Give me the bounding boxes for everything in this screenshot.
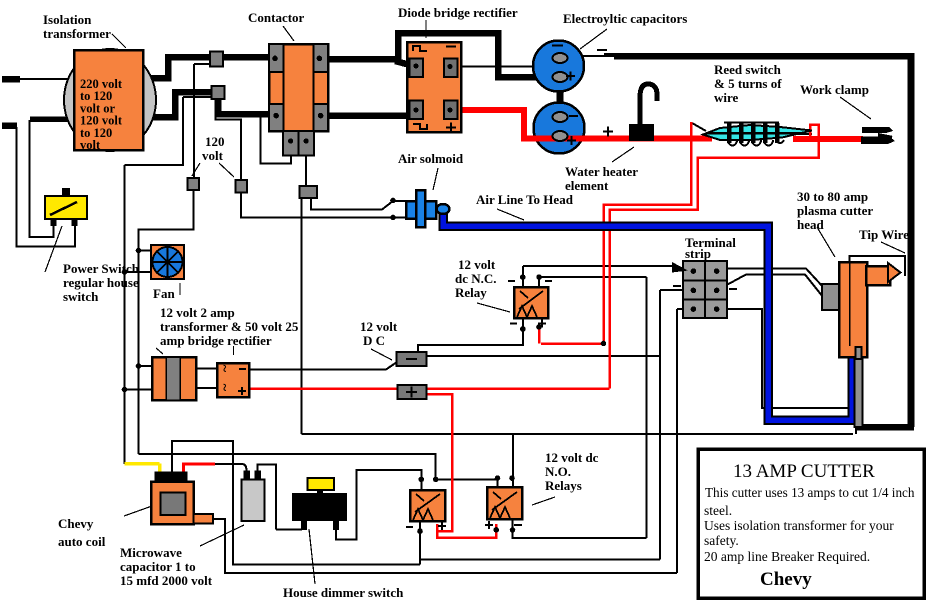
node label Contactor bbox=[248, 10, 305, 41]
wire 12v transformer to rectifier upper bbox=[195, 368, 219, 370]
wire power switch right leg loop bbox=[17, 127, 76, 247]
wire blue air line to head bbox=[443, 211, 852, 420]
wire NO relay B minus down bbox=[513, 519, 647, 538]
wire fan lower tap bbox=[125, 271, 154, 273]
svg-text:15 mfd 2000 volt: 15 mfd 2000 volt bbox=[120, 573, 213, 588]
svg-text:strip: strip bbox=[685, 246, 711, 261]
svg-text:Tip Wire: Tip Wire bbox=[859, 227, 909, 242]
water heater element bbox=[629, 84, 657, 141]
wire tap connector2 to left rail bbox=[125, 97, 213, 464]
wire work lead top thick bbox=[614, 53, 911, 60]
svg-text:amp bridge rectifier: amp bridge rectifier bbox=[160, 333, 272, 348]
wire minus block rail right bbox=[426, 355, 660, 357]
node label 30 to 80 amp plasma cutter head bbox=[797, 189, 873, 257]
contactor K1 bbox=[269, 44, 328, 131]
node label Tip Wire bbox=[859, 227, 909, 253]
node label Electroyltic capacitors bbox=[563, 11, 687, 49]
svg-text:This cutter uses 13 amps to cu: This cutter uses 13 amps to cut 1/4 inch bbox=[705, 485, 915, 500]
wire to NO relay A top-right bbox=[139, 454, 436, 480]
svg-text:capacitor 1 to: capacitor 1 to bbox=[120, 559, 196, 574]
chevy auto coil bbox=[151, 472, 213, 525]
node label Air solnoid bbox=[398, 151, 464, 190]
wire terminal t1 right to head gray block bbox=[727, 269, 824, 289]
svg-text:House dimmer switch: House dimmer switch bbox=[283, 585, 404, 600]
svg-text:30 to 80 amp: 30 to 80 amp bbox=[797, 189, 868, 204]
terminal strip TS1 bbox=[672, 261, 737, 318]
svg-text:Air solmoid: Air solmoid bbox=[398, 151, 464, 166]
diode bridge rectifier D1 bbox=[407, 42, 461, 133]
relay K3 12 volt dc N.O. A bbox=[406, 477, 446, 534]
svg-text:Contactor: Contactor bbox=[248, 10, 305, 25]
svg-text:20 amp line Breaker Required.: 20 amp line Breaker Required. bbox=[704, 549, 870, 564]
wire transformer upper output to contactor bbox=[143, 57, 278, 78]
wire contactor top-right to diode bridge bbox=[328, 56, 398, 63]
svg-text:Work clamp: Work clamp bbox=[800, 82, 869, 97]
svg-text:plasma cutter: plasma cutter bbox=[797, 203, 873, 218]
wire riser to terminal strip row3 bbox=[677, 309, 684, 573]
plasma cutter head bbox=[822, 262, 901, 427]
wire rail tap to 12v transformer upper bbox=[139, 365, 154, 367]
wire step up to head tube bbox=[855, 425, 857, 434]
wire mains hot thin to transformer bbox=[20, 78, 75, 80]
wire reed switch right lead bbox=[794, 133, 812, 135]
isolation transformer bbox=[64, 49, 156, 152]
svg-text:12 volt dc: 12 volt dc bbox=[545, 450, 599, 465]
12 volt DC plus block bbox=[398, 385, 427, 399]
node label 12 volt DC bbox=[360, 319, 398, 360]
wire capacitor series link bar bbox=[557, 74, 564, 120]
node coil circuit connector bbox=[300, 186, 318, 198]
svg-text:volt: volt bbox=[202, 148, 224, 163]
svg-text:Chevy: Chevy bbox=[760, 569, 812, 590]
node label 12 volt 2 amp transformer bbox=[156, 305, 299, 355]
node label 12 volt dc N.O. Relays bbox=[532, 450, 599, 505]
wire diode top over to capacitor plus bbox=[398, 33, 557, 77]
wire minus block to NC relay minus pin bbox=[418, 318, 523, 352]
wire riser to terminal strip row2 bbox=[660, 290, 684, 560]
wire red down to NO relay coils bbox=[426, 394, 452, 531]
50 volt 25 amp bridge rectifier D2 bbox=[217, 363, 249, 397]
svg-text:Uses isolation transformer for: Uses isolation transformer for your bbox=[704, 518, 894, 533]
svg-text:head: head bbox=[797, 217, 825, 232]
svg-text:Air Line To Head: Air Line To Head bbox=[476, 192, 574, 207]
svg-text:Electroyltic capacitors: Electroyltic capacitors bbox=[563, 11, 687, 26]
svg-text:12 volt 2 amp: 12 volt 2 amp bbox=[160, 305, 235, 320]
node mains connector 2 bbox=[212, 86, 225, 99]
wire microwave capacitor to dimmer bbox=[258, 465, 303, 530]
node mains connector 1 bbox=[210, 52, 223, 67]
node label Isolation transformer bbox=[43, 12, 126, 48]
wire terminal t2 right diagonal to head bbox=[717, 275, 823, 298]
svg-text:12 volt: 12 volt bbox=[360, 319, 398, 334]
wire black clamp lead bbox=[861, 137, 892, 142]
node label Chevy auto coil bbox=[58, 506, 152, 549]
node label Fan bbox=[153, 283, 180, 301]
node minus mark above capacitor lead bbox=[597, 50, 614, 54]
house dimmer switch bbox=[292, 478, 347, 530]
svg-text:switch: switch bbox=[63, 289, 99, 304]
svg-text:N.O.: N.O. bbox=[545, 464, 571, 479]
svg-text:120: 120 bbox=[205, 134, 225, 149]
svg-text:transformer & 50 volt 25: transformer & 50 volt 25 bbox=[160, 319, 299, 334]
node label Power Switch bbox=[45, 226, 140, 304]
node junction dots bbox=[51, 198, 606, 481]
wire big connector right pin to solenoid top lead bbox=[311, 197, 407, 210]
wire link relay A to relay B tops bbox=[436, 479, 498, 491]
wire chevy coil tab to bottom run bbox=[213, 519, 677, 573]
svg-text:~: ~ bbox=[218, 383, 233, 391]
electrolytic capacitor C2 bbox=[534, 103, 585, 154]
svg-text:transformer: transformer bbox=[43, 26, 111, 41]
wire red reed switch to 12v plus rail bbox=[610, 125, 819, 389]
contactor coil box bbox=[283, 131, 314, 156]
wire connector to contactor lower pin bbox=[218, 95, 278, 114]
svg-text:Isolation: Isolation bbox=[43, 12, 92, 27]
svg-text:Reed switch: Reed switch bbox=[714, 62, 782, 77]
wire tap connector1 to 120v connector A bbox=[194, 64, 212, 179]
air solenoid bbox=[406, 190, 450, 227]
wire tip wire bbox=[850, 256, 906, 276]
node label 120 volt bbox=[192, 134, 234, 177]
node label Water heater element bbox=[565, 147, 638, 193]
node plus mark on red line bbox=[603, 127, 613, 137]
wire red work lead to clamp bbox=[793, 136, 863, 142]
svg-text:dc N.C.: dc N.C. bbox=[455, 271, 497, 286]
wire fan upper tap bbox=[139, 250, 154, 252]
node label House dimmer switch bbox=[283, 529, 404, 600]
wire bend into diode AC1 bbox=[395, 61, 414, 66]
svg-text:& 5 turns of: & 5 turns of bbox=[714, 76, 782, 91]
svg-text:element: element bbox=[565, 178, 609, 193]
svg-text:Fan: Fan bbox=[153, 286, 175, 301]
svg-text:Chevy: Chevy bbox=[58, 516, 94, 531]
node 120 volt connector A bbox=[188, 178, 200, 190]
wire red reed switch to NC relay plus bbox=[539, 122, 691, 344]
wire rail tap to 12v transformer lower bbox=[125, 389, 154, 391]
wire dimmer right leg to relay A top-left bbox=[336, 470, 421, 540]
wire contactor coil terminal2 down to connector bbox=[305, 155, 307, 187]
wire yellow chevy coil feed bbox=[125, 464, 160, 474]
wire rectifier minus output to minus block bbox=[248, 362, 397, 370]
fan bbox=[151, 245, 184, 279]
node label Diode bridge rectifier bbox=[398, 5, 518, 38]
svg-text:regular house: regular house bbox=[63, 275, 139, 290]
wire transformer lower-left stub bbox=[30, 116, 75, 122]
reed switch and 5 turns of wire bbox=[703, 123, 812, 146]
svg-text:Microwave: Microwave bbox=[120, 545, 182, 560]
wire 120v run to head area bbox=[302, 433, 854, 435]
microwave capacitor bbox=[242, 471, 265, 522]
node label Air Line To Head bbox=[476, 192, 574, 220]
svg-text:auto coil: auto coil bbox=[58, 534, 106, 549]
wire 120v rail A down-jog-left bbox=[139, 189, 194, 454]
wire NO relay A minus to riser bbox=[420, 521, 660, 565]
wire red to relay B plus bbox=[437, 524, 496, 538]
wire mains hot stub left bbox=[2, 76, 20, 83]
electrolytic capacitor C1 bbox=[533, 41, 584, 92]
relay K4 12 volt dc N.O. B bbox=[485, 475, 522, 532]
wire red DC positive crossing capacitor bbox=[524, 134, 712, 139]
wire connector B down to solenoid lower lead bbox=[241, 191, 393, 218]
wire solenoid lower lead bbox=[393, 217, 407, 219]
node label 12 volt dc N.C. Relay bbox=[455, 257, 510, 312]
node label Terminal strip bbox=[685, 235, 736, 261]
svg-text:Diode bridge rectifier: Diode bridge rectifier bbox=[398, 5, 518, 20]
svg-text:volt: volt bbox=[80, 138, 101, 152]
12 volt DC minus block bbox=[397, 352, 427, 366]
svg-text:Relay: Relay bbox=[455, 285, 487, 300]
svg-text:wire: wire bbox=[714, 90, 739, 105]
svg-text:12 volt: 12 volt bbox=[458, 257, 496, 272]
node 120 volt connector B bbox=[236, 180, 248, 193]
wire branch down to relay B top-right bbox=[512, 434, 514, 488]
wire red DC positive from diode to work line bbox=[450, 110, 712, 139]
svg-text:Relays: Relays bbox=[545, 478, 582, 493]
node label Work clamp bbox=[800, 82, 871, 119]
wire contactor pin to coil terminal1 bbox=[261, 116, 292, 164]
wire reed switch left lead bbox=[692, 123, 706, 131]
relay K2 12 volt dc N.C. bbox=[508, 274, 552, 332]
wire NC relay top-left to terminal strip t1 bbox=[523, 266, 674, 287]
work clamp bbox=[861, 127, 895, 144]
12 volt 2 amp transformer T2 bbox=[152, 357, 196, 400]
wire diode minus to capacitor top thin bbox=[458, 59, 557, 67]
wire cutter head cable bbox=[855, 424, 914, 431]
svg-text:Water heater: Water heater bbox=[565, 164, 638, 179]
wire mains neutral stub left bbox=[2, 122, 17, 129]
wire tap to 120v connector B bbox=[216, 99, 242, 181]
wire coil to microwave capacitor black part bbox=[214, 464, 247, 471]
svg-text:Power Switch: Power Switch bbox=[63, 261, 140, 276]
wire contactor bottom-right to diode AC2 bbox=[328, 112, 414, 119]
wire terminal t3 right down under head bbox=[727, 309, 850, 408]
power switch S1 bbox=[45, 188, 87, 226]
node info box 13 AMP CUTTER bbox=[698, 449, 924, 598]
wire red 12v positive rail bbox=[248, 387, 610, 390]
wire big connector left pin down bbox=[301, 197, 303, 434]
svg-text:steel.: steel. bbox=[704, 503, 732, 518]
wire work lead right border bbox=[908, 53, 915, 427]
node label Microwave capacitor bbox=[120, 525, 244, 588]
wire 12v transformer to rectifier lower bbox=[195, 387, 219, 389]
wire transformer lower output to connector bbox=[143, 92, 218, 117]
wire riser to NC relay top-right bbox=[539, 277, 646, 538]
svg-text:13 AMP CUTTER: 13 AMP CUTTER bbox=[733, 461, 875, 482]
node label Reed switch bbox=[714, 62, 782, 105]
wire capacitor minus lead thin bbox=[566, 55, 617, 57]
svg-text:D C: D C bbox=[363, 333, 385, 348]
wire power switch left leg loop bbox=[30, 120, 54, 237]
wire red chevy coil feed bbox=[184, 464, 216, 472]
svg-text:~: ~ bbox=[218, 364, 233, 372]
svg-text:safety.: safety. bbox=[704, 533, 739, 548]
wire chevy coil center terminal loop bbox=[172, 441, 420, 565]
